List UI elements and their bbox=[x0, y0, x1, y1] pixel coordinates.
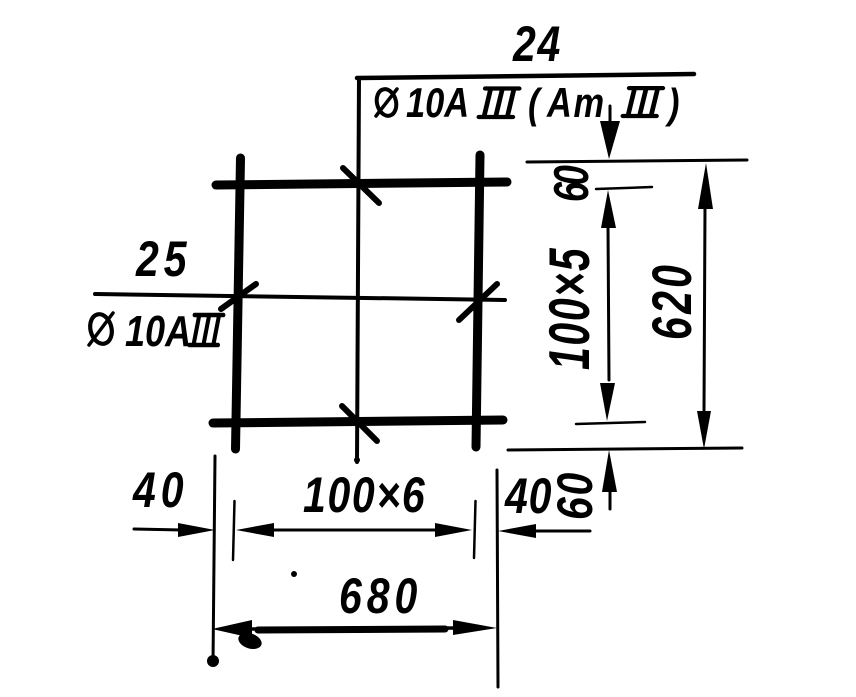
right bottom extension line bbox=[508, 448, 742, 450]
svg-text:40: 40 bbox=[132, 462, 188, 518]
cut slash at bottom crossing bbox=[342, 406, 377, 441]
cut slash at left crossing bbox=[221, 284, 256, 309]
cut slash at top crossing bbox=[343, 168, 379, 203]
svg-text:100×6: 100×6 bbox=[303, 467, 426, 523]
dim 60 bottom: up-arrow below extension bbox=[602, 450, 617, 509]
stray ink dot bbox=[291, 571, 297, 577]
svg-text:24: 24 bbox=[512, 16, 562, 72]
dim 40 left: arrow bbox=[134, 523, 215, 537]
svg-text:25: 25 bbox=[135, 231, 191, 287]
leader line of position 25 (horizontal through mesh) bbox=[95, 294, 505, 300]
dim 620: double arrow line bbox=[697, 163, 713, 449]
bottom right extension line bbox=[497, 470, 498, 687]
svg-text:10A: 10A bbox=[406, 80, 469, 127]
dim 40 right: arrow bbox=[498, 524, 590, 538]
tick at left bar axis (40 dim) bbox=[233, 501, 235, 560]
svg-text:Am: Am bbox=[546, 80, 606, 127]
dim 680: line with arrows bbox=[212, 620, 497, 652]
dim 100x6: double arrow line bbox=[236, 523, 472, 537]
dim 60/100x5 line: top down-arrow bbox=[600, 106, 620, 159]
blob at bottom end of leader 24 bbox=[354, 457, 360, 463]
tick at right bar axis (40 dim) bbox=[474, 501, 476, 558]
leader line of position 24 (horizontal over label) bbox=[357, 74, 694, 78]
svg-text:): ) bbox=[664, 81, 679, 128]
leader line of position 24 (vertical through mesh) bbox=[357, 78, 359, 462]
svg-text:100×5: 100×5 bbox=[537, 247, 601, 370]
svg-text:60: 60 bbox=[547, 471, 603, 520]
mesh: bottom horizontal rebar bbox=[213, 420, 503, 423]
mesh: top horizontal rebar bbox=[216, 182, 507, 185]
label diameter 10 A-III (At-III) top bbox=[374, 80, 679, 128]
tick at bottom bar axis (60 dim) bbox=[576, 422, 645, 424]
svg-text:10A: 10A bbox=[125, 307, 191, 356]
svg-text:620: 620 bbox=[642, 262, 704, 340]
svg-text:40: 40 bbox=[504, 468, 552, 524]
svg-text:680: 680 bbox=[339, 568, 422, 624]
mesh: left vertical rebar bbox=[236, 158, 241, 449]
label diameter 10 A-III left bbox=[87, 307, 223, 356]
tick at top bar axis (60 dim) bbox=[596, 187, 652, 189]
svg-text:60: 60 bbox=[545, 165, 600, 202]
dim 100x5: up-arrow under tick bbox=[600, 190, 616, 421]
mesh: right vertical rebar bbox=[476, 155, 480, 447]
bottom left extension line with end dot bbox=[207, 456, 219, 667]
right top extension line bbox=[527, 160, 747, 162]
cut slash at right crossing bbox=[459, 284, 497, 320]
svg-text:(: ( bbox=[528, 81, 543, 128]
